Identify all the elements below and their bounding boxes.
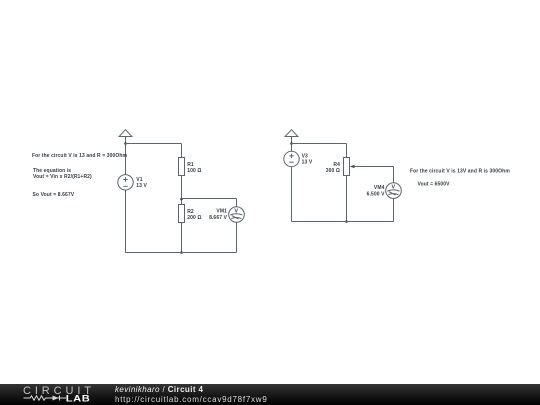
VM4 gauge arcs and needle xyxy=(387,190,399,195)
footer text xyxy=(115,385,268,404)
V1 minus sign xyxy=(123,185,127,187)
wire: down to R1 top xyxy=(181,144,183,158)
svg-text:6.500 V: 6.500 V xyxy=(367,191,386,197)
wire: down to VM4 top xyxy=(393,167,395,184)
wire: junction down to V1 top xyxy=(125,144,127,175)
footer bar xyxy=(0,384,540,405)
svg-text:So Vout = 8.667V: So Vout = 8.667V xyxy=(33,192,75,198)
power node symbol (left circuit) xyxy=(119,130,132,137)
wire: node stem to junction (right) xyxy=(291,137,293,144)
svg-text:For the circuit V is 13V and R: For the circuit V is 13V and R is 300Ohm xyxy=(410,168,510,174)
wire: R4 bottom to rail xyxy=(346,176,348,222)
junction dot top-right node xyxy=(290,142,293,145)
wire: V3 bottom to rail xyxy=(291,167,293,222)
svg-text:8.667 V: 8.667 V xyxy=(209,215,228,221)
V3 plus sign xyxy=(289,154,293,158)
svg-text:LAB: LAB xyxy=(66,394,91,404)
voltage source V1 circle xyxy=(118,175,133,190)
svg-text:100 Ω: 100 Ω xyxy=(187,168,201,174)
voltmeter VM1 circle xyxy=(229,207,245,223)
V3 minus sign xyxy=(289,161,293,163)
junction dot node A (between R1 and R2) xyxy=(180,198,183,201)
wire: top horizontal to R1 branch xyxy=(126,143,182,145)
logo resistor zigzag and diode xyxy=(24,396,67,401)
svg-text:13 V: 13 V xyxy=(136,183,147,189)
resistor R1 body xyxy=(179,158,185,176)
junction dot at top-left node xyxy=(124,142,127,145)
svg-text:R1: R1 xyxy=(187,162,194,168)
wire: V1 bottom to rail xyxy=(125,190,127,253)
wire: VM1 bottom to rail xyxy=(236,222,238,252)
voltmeter VM4 circle xyxy=(386,183,402,199)
svg-text:Vout = Vin x R2/(R1+R2): Vout = Vin x R2/(R1+R2) xyxy=(33,174,92,180)
svg-text:200 Ω: 200 Ω xyxy=(187,215,201,221)
wire: bottom rail left circuit xyxy=(126,252,237,254)
wire: bottom rail right circuit xyxy=(292,221,394,223)
svg-text:R4: R4 xyxy=(333,162,340,168)
svg-text:300 Ω: 300 Ω xyxy=(326,168,340,174)
svg-text:V3: V3 xyxy=(302,154,308,160)
voltage source V3 circle xyxy=(284,151,299,166)
svg-text:13 V: 13 V xyxy=(302,160,313,166)
power node symbol (right circuit) xyxy=(285,130,298,137)
CircuitLab logo xyxy=(0,384,100,405)
junction dot bottom rail xyxy=(180,251,183,254)
svg-text:V: V xyxy=(234,208,238,214)
V1 plus sign xyxy=(123,177,127,181)
potentiometer R4 body xyxy=(344,158,350,176)
resistor R2 body xyxy=(179,205,185,223)
svg-text:V1: V1 xyxy=(136,177,142,183)
svg-text:VM4: VM4 xyxy=(374,185,385,191)
VM1 gauge arcs and needle xyxy=(230,214,242,219)
junction dot bottom rail right xyxy=(345,220,348,223)
wire: R2 bottom to ground rail xyxy=(181,223,183,253)
wire: node stem to junction xyxy=(125,137,127,144)
wire: VM4 bottom to rail xyxy=(393,198,395,221)
wire: down to R4 top xyxy=(346,144,348,158)
svg-text:For the circuit V is 13 and R: For the circuit V is 13 and R = 300Ohm xyxy=(32,153,128,159)
wire: wiper to VM4 branch xyxy=(354,166,394,168)
svg-text:VM1: VM1 xyxy=(216,209,227,215)
wire: top horizontal to R4 branch xyxy=(292,143,347,145)
svg-text:Vout = 6500V: Vout = 6500V xyxy=(418,181,451,187)
svg-text:The equation is: The equation is xyxy=(33,168,71,174)
svg-text:V: V xyxy=(392,184,396,190)
R4 wiper arrow xyxy=(350,165,355,168)
wire: down to VM1 top xyxy=(236,199,238,207)
wire: junction down to V3 top xyxy=(291,144,293,152)
wire: R1 bottom to node A xyxy=(181,176,183,205)
wire: node A horizontal to VM1 branch xyxy=(182,198,237,200)
